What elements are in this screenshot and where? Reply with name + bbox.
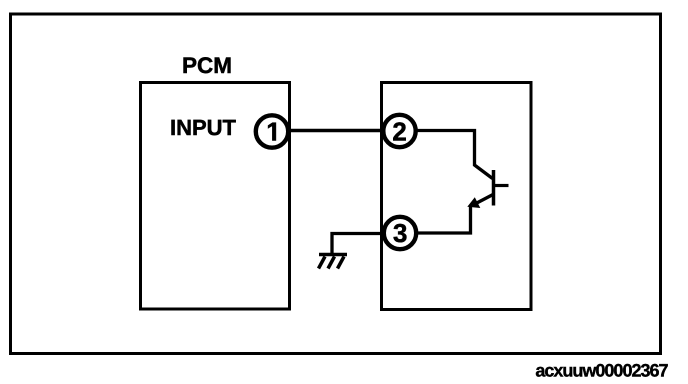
pin number 3: [394, 224, 407, 242]
pin number 1: [268, 123, 276, 141]
svg-text:INPUT: INPUT: [170, 115, 237, 140]
transistor Q1 emitter with arrow: [472, 195, 493, 206]
PCM box U1: [141, 83, 290, 310]
wire pin3 to ground: [332, 234, 383, 255]
transistor Q1 base bar: [492, 170, 496, 206]
transistor Q1 base lead: [494, 184, 509, 187]
pin 3: [384, 217, 416, 249]
pin 1: [256, 115, 288, 147]
wire pin2 to transistor collector: [418, 131, 493, 179]
svg-text:acxuuw00002367: acxuuw00002367: [535, 361, 668, 381]
pin 2: [383, 115, 415, 147]
wire emitter to pin 3: [418, 206, 471, 233]
pin number 2: [393, 122, 406, 140]
wire pin1 to pin2: [290, 129, 383, 132]
ground symbol: [319, 255, 348, 269]
svg-text:PCM: PCM: [182, 53, 232, 78]
component box (sensor): [382, 83, 532, 310]
